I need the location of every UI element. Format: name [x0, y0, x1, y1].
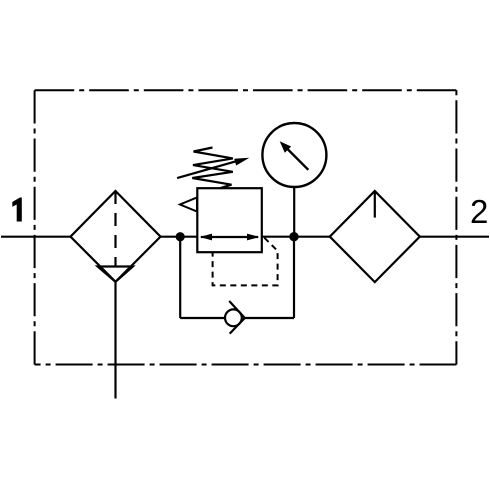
lubricator L1: [330, 191, 420, 282]
pilot line (dashed feedback loop): [213, 238, 278, 286]
wire: bypass bottom left segment: [180, 317, 225, 319]
regulator flow path (double-headed arrow): [200, 234, 260, 241]
junction B: [289, 232, 298, 241]
enclosure (service unit boundary, dash-dot): [35, 90, 457, 364]
regulator setting spring: [192, 148, 233, 189]
port label 1: [12, 198, 21, 222]
pressure gauge G1: [262, 123, 326, 187]
wire: inlet line from port 1 to filter: [1, 236, 71, 238]
filter with water separator F1: [71, 191, 161, 282]
svg-text:2: 2: [470, 193, 488, 230]
pressure regulator R1 (body): [197, 188, 261, 252]
junction A: [176, 232, 185, 241]
wire: condensate drain line: [114, 282, 116, 399]
wire: regulator outlet to lubricator: [262, 236, 330, 238]
check valve CV1: [225, 301, 245, 334]
wire: lubricator to port 2: [420, 236, 489, 238]
regulator relief vent triangle: [180, 197, 197, 211]
adjustment arrow: [177, 158, 249, 178]
wire: bypass up to junction B: [293, 237, 295, 318]
wire: bypass down from junction A: [179, 237, 181, 318]
wire: gauge stem: [293, 187, 295, 237]
wire: filter outlet to regulator inlet: [161, 236, 198, 238]
wire: bypass bottom right segment: [245, 317, 294, 319]
